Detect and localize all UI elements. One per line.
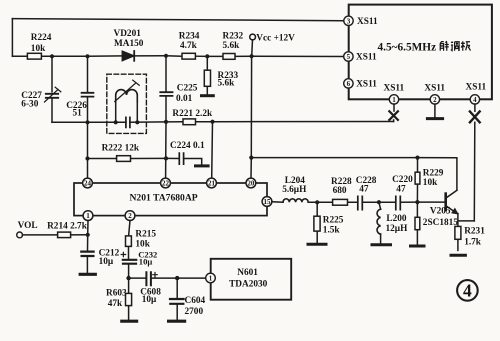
- svg-text:XS11: XS11: [356, 79, 377, 89]
- svg-text:MA150: MA150: [114, 39, 144, 49]
- char jie: [440, 41, 449, 50]
- node M L204/R225/R228: [315, 200, 319, 204]
- wire collector feed line: [251, 158, 457, 191]
- wire IC pin2 down: [129, 221, 130, 236]
- inductor L200: [377, 202, 381, 243]
- resistor R214: [23, 232, 88, 238]
- svg-text:VOL: VOL: [18, 221, 38, 231]
- svg-text:10μ: 10μ: [142, 295, 157, 305]
- capacitor C232 electrolytic: [123, 260, 136, 278]
- svg-text:XS11: XS11: [466, 83, 487, 93]
- wire XS11 pin1 stub: [393, 104, 395, 111]
- pin 21 of N201: [207, 178, 217, 188]
- transistor V205: [417, 190, 457, 214]
- wire node J down to IC pin21: [211, 122, 214, 179]
- svg-text:15: 15: [264, 198, 272, 206]
- svg-text:3: 3: [347, 17, 351, 25]
- node Q pin1/R214/C212: [86, 233, 90, 237]
- pin 20 of N201: [246, 178, 256, 188]
- pin 1 of N201: [83, 211, 93, 221]
- node H C226 bottom: [85, 120, 89, 124]
- node N C228/L200/C220: [377, 200, 381, 204]
- svg-text:R603: R603: [106, 288, 127, 298]
- wire y122 to XS11 pin1: [213, 121, 394, 123]
- svg-text:1.5k: 1.5k: [323, 225, 341, 235]
- node F coil left: [114, 120, 118, 124]
- svg-text:R221 2.2k: R221 2.2k: [172, 109, 213, 119]
- wire IC pin1 down: [87, 221, 89, 235]
- resistor R230 unlabeled: [415, 202, 420, 244]
- connector XS11 pin 4: [470, 95, 479, 104]
- wire pin4 down to emitter jog: [473, 122, 476, 221]
- resistor R225: [314, 202, 320, 242]
- node D junction R233: [205, 54, 209, 58]
- resistor R234: [166, 53, 207, 59]
- resistor R221: [166, 119, 213, 125]
- resistor R222: [88, 156, 167, 162]
- wire to diode anode: [88, 55, 123, 57]
- ground under L200: [372, 243, 391, 246]
- wire left drop to R224: [11, 19, 13, 57]
- connector XS11 pin 2: [430, 95, 439, 104]
- char ban: [461, 41, 470, 50]
- capacitor C608 electrolytic: [129, 272, 178, 285]
- svg-text:2700: 2700: [185, 307, 204, 317]
- svg-text:N601: N601: [237, 268, 258, 278]
- wire C226 node down to IC pin24: [87, 122, 89, 178]
- wire XS11 pin2 stub: [434, 104, 436, 117]
- no-connect X at pin1: [389, 111, 398, 120]
- node O transistor base node: [415, 200, 419, 204]
- svg-text:4.7k: 4.7k: [180, 41, 198, 51]
- wire Vcc vertical to pin20: [250, 56, 253, 178]
- wire bus to XS11 pin5: [252, 55, 344, 57]
- wire y122 bus: [52, 121, 166, 123]
- svg-text:1: 1: [86, 212, 90, 220]
- capacitor C224: [166, 153, 202, 164]
- inductor L204: [283, 199, 308, 202]
- node G coil right: [135, 120, 139, 124]
- svg-text:XS11: XS11: [424, 84, 445, 94]
- svg-text:24: 24: [84, 180, 92, 188]
- pin 22 of N201: [161, 178, 171, 188]
- svg-text:2SC1815: 2SC1815: [423, 218, 458, 228]
- svg-text:5.6μH: 5.6μH: [282, 185, 307, 195]
- ground under R233: [202, 94, 214, 97]
- svg-text:R222 12k: R222 12k: [102, 143, 140, 153]
- diode VD201: [122, 51, 166, 61]
- svg-text:2: 2: [433, 96, 437, 104]
- svg-text:47: 47: [396, 184, 406, 194]
- pin 24 of N201: [83, 178, 93, 188]
- svg-text:51: 51: [73, 108, 83, 118]
- page number circle 4: [457, 280, 478, 301]
- svg-text:10k: 10k: [135, 239, 150, 249]
- svg-text:5.6k: 5.6k: [223, 41, 241, 51]
- svg-text:C224 0.1: C224 0.1: [170, 141, 205, 151]
- ground under C224: [196, 164, 209, 167]
- pin 2 of N201: [125, 211, 135, 221]
- node K R222 left: [85, 156, 89, 160]
- capacitor C226: [82, 56, 94, 122]
- wire emitter down: [457, 214, 459, 227]
- pin 15 of N201: [262, 197, 272, 207]
- node I C225 bottom: [164, 120, 168, 124]
- node A junction R224/C227: [50, 54, 54, 58]
- ground under R231: [451, 254, 465, 257]
- svg-text:4: 4: [473, 96, 477, 104]
- wire emitter to pin4 line: [458, 220, 474, 222]
- svg-text:Vcc +12V: Vcc +12V: [256, 33, 295, 43]
- capacitor C604: [170, 278, 184, 319]
- node L C224 left: [164, 156, 168, 160]
- svg-text:4.5~6.5MHz: 4.5~6.5MHz: [378, 41, 437, 53]
- node T Vcc line branch: [249, 156, 253, 160]
- svg-text:VD201: VD201: [114, 29, 142, 39]
- resistor R228: [317, 199, 357, 205]
- ground under C212: [80, 273, 95, 276]
- node B junction C226: [85, 54, 89, 58]
- capacitor C228: [358, 196, 379, 209]
- inductor T201 coil: [115, 80, 139, 122]
- svg-text:10k: 10k: [31, 44, 46, 54]
- wire C225 node down to IC pin22: [165, 122, 167, 178]
- capacitor C225: [160, 56, 172, 122]
- svg-text:47: 47: [359, 184, 369, 194]
- svg-text:6: 6: [347, 80, 351, 88]
- svg-text:0.01: 0.01: [176, 94, 193, 104]
- ground under R225: [308, 243, 326, 246]
- ground under R230: [411, 245, 425, 248]
- node C junction diode/C225: [164, 54, 168, 58]
- amplifier N601 body: [211, 259, 292, 300]
- wire XS11 pin4 stub: [474, 104, 476, 111]
- svg-text:C225: C225: [177, 83, 198, 93]
- IC N201 body: [74, 183, 267, 216]
- node P R229 top: [415, 156, 419, 160]
- wire L204 to node M: [308, 201, 317, 203]
- svg-text:47k: 47k: [108, 299, 123, 309]
- svg-text:10k: 10k: [423, 178, 438, 188]
- svg-text:R231: R231: [464, 227, 485, 237]
- svg-text:5: 5: [347, 53, 351, 61]
- svg-text:680: 680: [333, 186, 347, 196]
- capacitor C212 electrolytic: [81, 235, 93, 273]
- node E junction Vcc tap: [250, 54, 254, 58]
- svg-text:1: 1: [392, 96, 396, 104]
- demod board box 4.5-6.5MHz: [349, 5, 492, 100]
- wire node S to N601 pin1: [177, 277, 205, 279]
- no-connect X at pin4: [470, 112, 480, 123]
- capacitor inside T201 box: [126, 117, 130, 127]
- label chinese jiedieban: [440, 41, 471, 50]
- svg-text:12μH: 12μH: [386, 224, 409, 234]
- plus mark C232: [121, 252, 125, 256]
- svg-text:R215: R215: [135, 230, 156, 240]
- char diao: [451, 42, 459, 51]
- wire X to y122 bus: [393, 120, 395, 122]
- connector XS11 pin 1: [389, 95, 398, 104]
- wire top bus Vcc rail: [12, 19, 343, 21]
- svg-text:5.6k: 5.6k: [218, 79, 236, 89]
- connector XS11 pin 3: [344, 16, 353, 25]
- ground under XS11 pin2: [427, 117, 442, 120]
- svg-text:20: 20: [247, 180, 255, 188]
- resistor R232: [207, 54, 251, 60]
- svg-text:R224: R224: [31, 33, 52, 43]
- resistor R215: [126, 236, 132, 259]
- node S C608/C604: [175, 276, 179, 280]
- plus mark C608: [153, 273, 157, 277]
- connector XS11 pin 5: [344, 52, 353, 61]
- pin 1 of N601: [206, 273, 216, 283]
- ground under R603: [122, 320, 137, 323]
- terminal Vcc +12V: [250, 34, 256, 56]
- capacitor C220: [379, 196, 418, 209]
- svg-text:C604: C604: [185, 296, 206, 306]
- wire pin15 to L204: [272, 201, 283, 203]
- svg-text:10μ: 10μ: [139, 257, 153, 267]
- svg-text:1: 1: [209, 275, 213, 283]
- node J R221 right: [210, 120, 214, 124]
- svg-text:V205: V205: [430, 207, 451, 217]
- svg-text:4: 4: [463, 281, 472, 301]
- svg-text:L200: L200: [386, 214, 406, 224]
- resistor R233: [204, 56, 210, 94]
- terminal VOL: [17, 232, 23, 238]
- node R C232/R603/C608: [126, 276, 130, 280]
- svg-text:21: 21: [208, 180, 216, 188]
- dashed coil box T201: [107, 74, 147, 133]
- connector XS11 pin 6: [344, 79, 353, 88]
- svg-text:10μ: 10μ: [99, 257, 114, 267]
- resistor R224: [12, 53, 52, 59]
- capacitor C227 trimmer: [45, 56, 61, 122]
- svg-text:1.7k: 1.7k: [464, 238, 482, 248]
- svg-text:22: 22: [162, 180, 170, 188]
- resistor R231: [455, 226, 461, 250]
- svg-text:XS11: XS11: [356, 52, 377, 62]
- resistor R229: [415, 158, 420, 203]
- resistor R603: [126, 278, 132, 319]
- svg-text:N201 TA7680AP: N201 TA7680AP: [130, 193, 198, 204]
- svg-text:2: 2: [128, 212, 132, 220]
- svg-text:XS11: XS11: [357, 17, 378, 27]
- ground under C604: [169, 320, 185, 323]
- wire bus to C226 node: [52, 55, 88, 57]
- svg-text:R225: R225: [323, 216, 344, 226]
- svg-text:TDA2030: TDA2030: [229, 280, 268, 290]
- svg-text:R214 2.7k: R214 2.7k: [47, 221, 88, 231]
- svg-text:XS11: XS11: [384, 84, 405, 94]
- svg-text:6-30: 6-30: [21, 99, 38, 109]
